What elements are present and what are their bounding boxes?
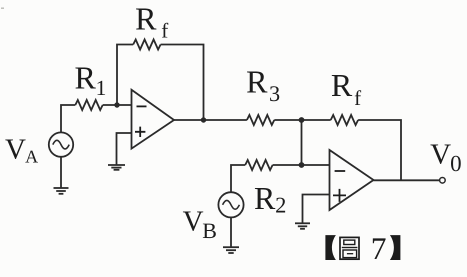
svg-text:7: 7: [371, 231, 387, 266]
svg-text:A: A: [25, 146, 38, 166]
label R1: [75, 60, 107, 100]
op-amp U1: [132, 90, 175, 149]
ground (VA): [54, 188, 69, 194]
node A junction dot: [114, 102, 119, 107]
svg-text:R: R: [331, 67, 353, 103]
scan speck (left edge): [1, 8, 4, 9]
wire: node B to Rf2: [302, 119, 331, 121]
svg-text:f: f: [354, 86, 361, 110]
wire: Rf top right segment down to op1 output node: [161, 45, 204, 121]
wire: op2 non-inverting input to ground: [303, 195, 330, 224]
label R3: [246, 64, 280, 107]
label R2: [254, 180, 286, 218]
wire: op1 non-inverting input to ground: [117, 133, 132, 165]
wire: op2 output to V0 terminal: [374, 179, 440, 181]
wire: VB top to R2: [231, 165, 245, 192]
svg-text:B: B: [202, 218, 217, 243]
wire: R2 through node C to op2 inverting input: [273, 164, 330, 166]
svg-text:R: R: [246, 64, 268, 100]
ground (VB): [223, 247, 239, 253]
svg-text:f: f: [161, 18, 168, 42]
junction dot op1 output / Rf1: [201, 117, 206, 122]
resistor Rf (right): [331, 115, 358, 125]
svg-text:V: V: [5, 134, 26, 166]
output terminal V0 (open circle): [440, 178, 446, 184]
wire: feedback loop Rf1 (node A up, across top, down to op1 output): [117, 45, 133, 106]
svg-text:3: 3: [269, 81, 280, 106]
node B junction dot (R3/Rf2): [299, 117, 305, 123]
figure caption 【圖 7】: [325, 231, 400, 266]
op-amp U1 plus pin mark: [135, 127, 145, 137]
wire: Rf2 right down to op2 output: [358, 120, 401, 180]
resistor R3: [247, 115, 274, 125]
voltage source VB: [218, 192, 243, 217]
svg-text:0: 0: [450, 151, 462, 176]
wire: node B down to node C: [301, 120, 303, 165]
bracket 】: [390, 235, 401, 260]
voltage source VA: [49, 132, 73, 156]
wire: R3 to node B: [274, 119, 301, 121]
wire: op1 output to R3: [174, 119, 247, 121]
svg-text:R: R: [254, 180, 276, 216]
op-amp U2 minus pin mark: [335, 170, 346, 172]
resistor R2: [245, 160, 272, 170]
label Rf (second feedback resistor): [331, 67, 361, 110]
svg-text:V: V: [430, 138, 451, 170]
op-amp U2: [330, 150, 374, 210]
svg-text:2: 2: [275, 192, 286, 217]
svg-text:V: V: [183, 206, 204, 238]
wire: VA top to R1: [61, 105, 75, 132]
op-amp U1 minus pin mark: [137, 105, 147, 107]
label VA: [5, 134, 38, 167]
wire: R1 to op1 inverting input: [103, 104, 132, 106]
wire: VA bottom to ground: [60, 157, 62, 188]
glyph 圖 (drawn): [340, 237, 359, 259]
label Rf (top feedback resistor): [135, 1, 168, 43]
svg-text:1: 1: [96, 76, 107, 100]
op-amp U2 plus pin mark: [333, 189, 346, 202]
svg-text:R: R: [75, 60, 97, 96]
resistor R1: [75, 100, 102, 110]
resistor Rf (top): [133, 40, 160, 50]
wire: VB bottom to ground: [230, 217, 232, 247]
label VB: [183, 206, 217, 243]
label V0: [430, 138, 462, 176]
bracket 【: [325, 235, 336, 260]
ground (op2 +): [295, 223, 310, 229]
node C junction dot (R2/op2 inverting): [299, 162, 305, 168]
ground (op1 +): [108, 165, 125, 170]
svg-text:R: R: [135, 1, 157, 37]
